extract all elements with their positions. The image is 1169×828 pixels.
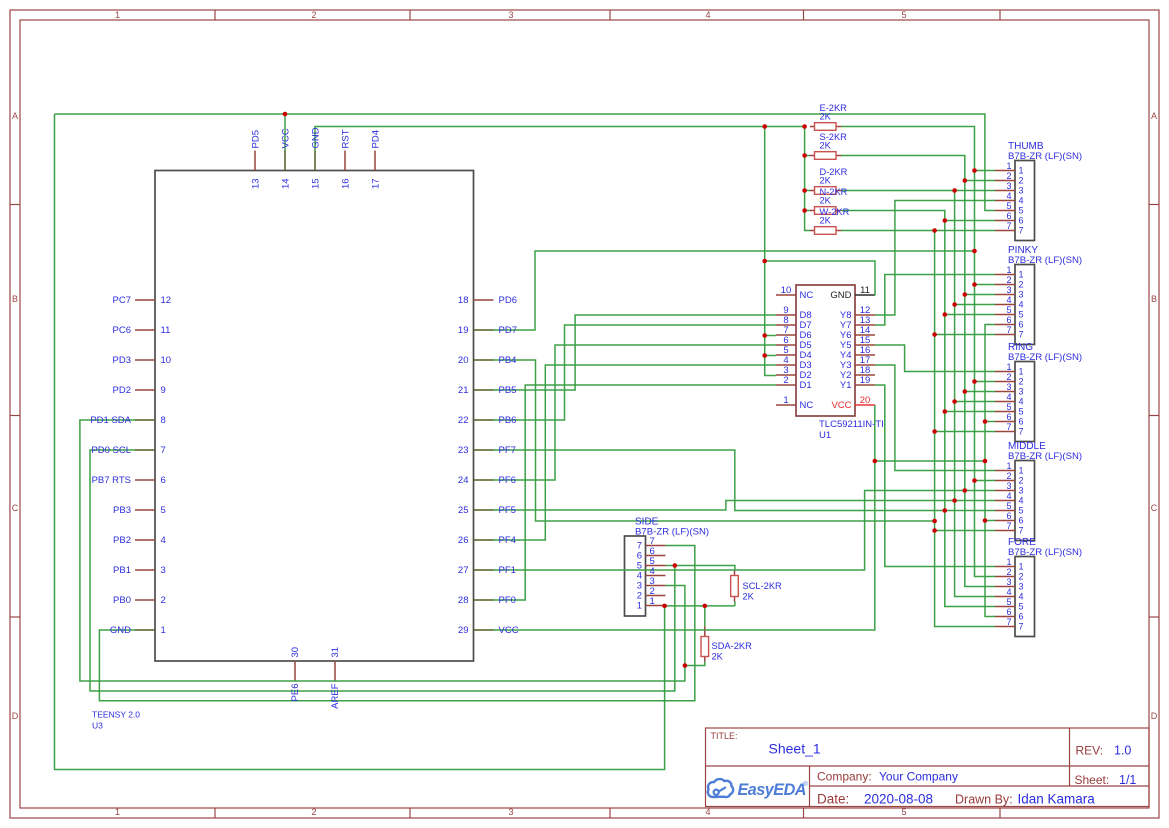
svg-text:7: 7 [1006,422,1011,432]
U3 pin 17 PD4 [374,151,376,171]
svg-text:1: 1 [115,807,120,817]
svg-text:19: 19 [458,325,469,336]
U1 pin 14 Y6 [855,334,875,336]
U3 pin 15 GND [314,151,316,171]
U3 pin 12 PC7 [135,299,155,301]
svg-text:B7B-ZR (LF)(SN): B7B-ZR (LF)(SN) [1008,151,1082,162]
svg-text:C: C [1151,503,1158,513]
resistor R N-2KR labels [820,187,848,206]
wire U3 pin22 PB6 to U1 D7 [494,325,777,420]
svg-text:20: 20 [860,395,871,406]
svg-text:PB5: PB5 [499,385,517,396]
connector MIDDLE B7B-ZR body labels [1008,441,1082,462]
wire U3 pin25 PF5 D sense [494,501,955,511]
svg-text:Sheet:: Sheet: [1075,773,1110,787]
wire net SDA from U3 pin8 to SIDE pin3 [80,420,685,681]
svg-text:VCC: VCC [281,128,292,148]
U3 pin 2 PB0 [135,599,155,601]
U3 pin 29 VCC [474,629,494,631]
svg-text:14: 14 [281,178,292,189]
U3 pin 2 PB0 labels [113,595,166,606]
wire net W column [841,231,995,627]
U1 pin 12 Y8 [855,314,875,316]
THUMB pin 1 [995,170,1015,172]
U1 pin 16 Y4 labels [840,345,870,361]
svg-text:PB4: PB4 [499,355,517,366]
svg-text:8: 8 [161,415,166,426]
PINKY pin 3 [995,294,1015,296]
svg-text:2: 2 [1006,275,1011,285]
wire VCC link row [875,460,985,462]
SIDE pin 4 labels [637,566,655,582]
svg-text:1: 1 [650,596,655,607]
resistor SDA-2KR [701,627,709,662]
MIDDLE pin 1 labels [1006,461,1023,476]
U3 pin 29 VCC labels [458,625,519,636]
connector THUMB B7B-ZR body [1015,161,1035,241]
svg-text:3: 3 [1019,186,1024,196]
MIDDLE pin 6 labels [1006,511,1023,526]
U3 pin 15 GND labels [311,127,322,189]
svg-text:1: 1 [1006,161,1011,171]
svg-text:2K: 2K [743,592,755,602]
svg-text:7: 7 [1019,330,1024,340]
svg-text:1: 1 [783,395,788,406]
PINKY pin 4 [995,304,1015,306]
svg-text:29: 29 [458,625,469,636]
svg-text:PB7 RTS: PB7 RTS [92,475,131,486]
svg-text:27: 27 [458,565,469,576]
U3 pin 1 GND labels [110,625,166,636]
PINKY pin 7 labels [1006,325,1023,340]
resistor R E-2KR [810,123,841,131]
svg-text:1: 1 [1019,166,1024,176]
svg-text:PD3: PD3 [113,355,131,366]
svg-text:4: 4 [1019,196,1024,206]
svg-text:21: 21 [458,385,469,396]
U3 pin 17 PD4 labels [371,130,382,189]
svg-text:2020-08-08: 2020-08-08 [864,792,933,807]
MIDDLE pin 1 [995,470,1015,472]
PINKY pin 4 labels [1006,295,1023,310]
RING pin 4 labels [1006,392,1023,407]
connector RING B7B-ZR body labels [1008,342,1082,363]
svg-text:3: 3 [1019,290,1024,300]
wire net N column [841,211,995,607]
svg-text:2K: 2K [820,196,832,206]
THUMB pin 6 [995,220,1015,222]
PINKY pin 3 labels [1006,285,1023,300]
svg-text:2K: 2K [712,652,724,662]
U3 pin 30 PE6 labels [290,647,301,702]
svg-text:TEENSY 2.0: TEENSY 2.0 [92,710,140,720]
svg-text:B7B-ZR (LF)(SN): B7B-ZR (LF)(SN) [1008,547,1082,558]
U3 pin 7 PD0 SCL [135,449,155,451]
U3 pin 8 PD1 SDA [135,419,155,421]
svg-text:GND: GND [110,625,131,636]
U1 pin 5 D4 [776,354,796,356]
U3 pin 5 PB3 [135,509,155,511]
svg-text:3: 3 [508,807,513,817]
svg-text:2: 2 [1019,377,1024,387]
svg-text:2: 2 [1019,176,1024,186]
U3 pin 23 PF7 labels [458,445,516,456]
U1 pin 9 D8 labels [783,305,811,321]
svg-text:2: 2 [1006,372,1011,382]
SIDE pin 6 [646,555,666,557]
U3 pin 11 PC6 labels [113,325,171,336]
resistor R S-2KR [810,152,841,160]
THUMB pin 6 labels [1006,211,1023,226]
U3 pin 5 PB3 labels [113,505,166,516]
wire net E column [841,127,995,577]
U1 pin 3 D2 labels [783,365,811,381]
U1 pin 4 D3 labels [783,355,811,371]
RING pin 7 labels [1006,422,1023,437]
svg-text:1: 1 [1006,557,1011,567]
resistor R D-2KR labels [820,167,848,186]
svg-text:A: A [1151,111,1157,121]
svg-text:5: 5 [1019,310,1024,320]
SIDE pin 1 labels [637,596,655,612]
svg-text:1: 1 [1019,270,1024,280]
svg-text:2K: 2K [820,176,832,186]
U1 pin 6 D5 labels [783,335,811,351]
PINKY pin 5 [995,314,1015,316]
U3 pin 18 PD6 labels [458,295,517,306]
resistor R N-2KR [810,207,841,215]
U1 pin 3 D2 [776,374,796,376]
svg-text:6: 6 [1019,612,1024,622]
svg-text:NC: NC [800,290,814,301]
svg-text:2: 2 [161,595,166,606]
U3 pin 9 PD2 [135,389,155,391]
THUMB pin 1 labels [1006,161,1023,176]
svg-text:®: ® [803,780,808,788]
U3 pin 21 PB5 labels [458,385,517,396]
FORE pin 3 labels [1006,577,1023,592]
wire GND to U1 D2 D4 D6 [765,127,776,376]
RING pin 3 labels [1006,382,1023,397]
svg-text:6: 6 [1019,320,1024,330]
svg-text:3: 3 [1006,481,1011,491]
FORE pin 2 [995,576,1015,578]
wire SIDE pin5 row to SCL-2KR [666,566,735,571]
U1 pin 9 D8 [776,314,796,316]
RING pin 3 [995,391,1015,393]
svg-text:5: 5 [1019,506,1024,516]
wire net S column [841,156,995,587]
SIDE pin 3 [646,585,666,587]
U3 pin 1 GND [135,629,155,631]
connector THUMB B7B-ZR body labels [1008,141,1082,162]
svg-text:PD4: PD4 [371,130,382,148]
U3 pin 21 PB5 [474,389,494,391]
U3 pin 13 PD5 [254,151,256,171]
svg-text:A: A [12,111,18,121]
wire U1 Y5 to RING pin1 [875,345,995,372]
U3 pin 16 RST [344,151,346,171]
resistor R D-2KR [810,187,841,195]
MIDDLE pin 4 [995,500,1015,502]
svg-text:2: 2 [1019,280,1024,290]
U3 pin 20 PB4 [474,359,494,361]
svg-text:2: 2 [1019,476,1024,486]
RING pin 1 [995,371,1015,373]
MIDDLE pin 3 labels [1006,481,1023,496]
RING pin 2 labels [1006,372,1023,387]
U3 pin 4 PB2 labels [113,535,166,546]
U3 pin 19 PD7 [474,329,494,331]
svg-text:18: 18 [458,295,469,306]
resistor R W-2KR labels [820,207,850,226]
resistor SDA-2KR labels [712,641,753,662]
U3 pin 28 PF0 labels [458,595,516,606]
U1 pin 12 Y8 labels [840,305,870,321]
SIDE pin 7 labels [637,536,655,552]
EasyEDA logo [708,779,733,797]
svg-text:11: 11 [161,325,171,336]
SIDE pin 5 [646,565,666,567]
MIDDLE pin 6 [995,520,1015,522]
U3 pin 26 PF4 [474,539,494,541]
svg-text:PB3: PB3 [113,505,131,516]
svg-text:12: 12 [161,295,172,306]
MIDDLE pin 7 labels [1006,521,1023,536]
connector SIDE B7B-ZR body labels [635,517,709,538]
U3 pin 10 PD3 labels [113,355,172,366]
svg-text:10: 10 [781,285,792,296]
THUMB pin 3 [995,190,1015,192]
SIDE pin 5 labels [637,556,655,572]
U3 pin 25 PF5 [474,509,494,511]
U1 pin 11 GND labels [830,285,870,301]
svg-text:7: 7 [1019,526,1024,536]
MIDDLE pin 5 [995,510,1015,512]
svg-text:3: 3 [1006,577,1011,587]
svg-text:EasyEDA: EasyEDA [738,781,806,799]
U3 pin 22 PB6 labels [458,415,517,426]
U1 pin 10 NC [776,294,796,296]
svg-text:1/1: 1/1 [1119,773,1136,787]
THUMB pin 7 [995,230,1015,232]
FORE pin 6 [995,616,1015,618]
svg-text:Drawn By:: Drawn By: [955,793,1013,807]
svg-text:4: 4 [1006,587,1011,597]
svg-text:6: 6 [1006,412,1011,422]
wire U1 Y8 to THUMB pin4 [875,201,995,316]
U3 pin 24 PF6 labels [458,475,516,486]
svg-text:D: D [12,711,19,721]
U3 pin 31 AREF labels [330,647,341,709]
svg-text:VCC: VCC [831,400,851,411]
wire net D column [841,191,995,597]
svg-text:PF1: PF1 [499,565,516,576]
svg-text:4: 4 [705,807,710,817]
U1 pin 1 NC [776,404,796,406]
SIDE pin 6 labels [637,546,655,562]
svg-text:6: 6 [1006,607,1011,617]
resistor R S-2KR labels [820,132,848,151]
U3 pin 6 PB7 RTS [135,479,155,481]
FORE pin 5 labels [1006,597,1023,612]
RING pin 1 labels [1006,362,1023,377]
U1 pin 19 Y1 labels [840,375,870,391]
svg-text:3: 3 [1019,486,1024,496]
wire SDA-2KR bottom to SDA net [685,662,705,666]
SIDE pin 2 [646,595,666,597]
U1 pin 10 NC labels [781,285,814,301]
wire net SCL from U3 pin7 to SIDE pin5 [90,450,675,691]
PINKY pin 2 labels [1006,275,1023,290]
U3 pin 25 PF5 labels [458,505,516,516]
svg-text:2K: 2K [820,141,832,151]
svg-text:26: 26 [458,535,469,546]
RING pin 2 [995,381,1015,383]
U1 pin 8 D7 labels [783,315,811,331]
svg-text:17: 17 [371,178,382,189]
svg-text:TITLE:: TITLE: [711,731,738,741]
svg-text:1.0: 1.0 [1114,744,1131,758]
U1 pin 1 NC labels [783,395,813,411]
U3 pin 3 PB1 labels [113,565,166,576]
PINKY pin 2 [995,284,1015,286]
FORE pin 7 labels [1006,617,1023,632]
MIDDLE pin 2 labels [1006,471,1023,486]
U1 pin 16 Y4 [855,354,875,356]
svg-text:RST: RST [341,129,352,148]
svg-text:SDA-2KR: SDA-2KR [712,641,753,651]
SIDE pin 2 labels [637,586,655,602]
wire SIDE pin1 VCC row [665,602,735,606]
svg-text:7: 7 [161,445,166,456]
connector RING B7B-ZR body [1015,362,1035,442]
svg-text:3: 3 [161,565,166,576]
svg-text:PC7: PC7 [113,295,131,306]
U3 pin 26 PF4 labels [458,535,516,546]
svg-text:4: 4 [1006,392,1011,402]
IC U3 TEENSY 2.0 body [155,171,474,662]
THUMB pin 7 labels [1006,221,1023,236]
svg-text:6: 6 [1006,211,1011,221]
U1 pin 13 Y7 [855,324,875,326]
SIDE pin 3 labels [637,576,655,592]
svg-text:Idan Kamara: Idan Kamara [1018,792,1096,807]
svg-text:31: 31 [330,647,341,658]
U3 pin 6 PB7 RTS labels [92,475,166,486]
resistor R E-2KR labels [820,103,848,122]
wire U3 pin20 PB4 W sense [494,360,935,521]
PINKY pin 6 [995,324,1015,326]
U3 pin 13 PD5 labels [251,130,262,189]
MIDDLE pin 7 [995,530,1015,532]
wire U1 Y3 to MIDDLE pin1 [875,365,995,471]
U3 pin 8 PD1 SDA labels [90,415,165,426]
THUMB pin 2 labels [1006,171,1023,186]
FORE pin 3 [995,586,1015,588]
wire SDA-2KR top to VCC row [704,606,706,627]
svg-text:19: 19 [860,375,871,386]
THUMB pin 3 labels [1006,181,1023,196]
U3 pin 7 PD0 SCL labels [91,445,165,456]
FORE pin 7 [995,626,1015,628]
svg-text:1: 1 [637,601,642,612]
svg-text:PB1: PB1 [113,565,131,576]
svg-text:C: C [12,503,19,513]
svg-text:D1: D1 [800,380,812,391]
FORE pin 2 labels [1006,567,1023,582]
U3 pin 19 PD7 labels [458,325,517,336]
FORE pin 4 labels [1006,587,1023,602]
svg-text:PB0: PB0 [113,595,131,606]
U3 pin 24 PF6 [474,479,494,481]
svg-text:5: 5 [161,505,166,516]
svg-text:2: 2 [1019,572,1024,582]
svg-text:GND: GND [311,127,322,148]
U1 pin 14 Y6 labels [840,325,870,341]
svg-text:4: 4 [161,535,166,546]
svg-text:REV:: REV: [1076,744,1104,758]
wire U3 pin28 PF0 to U1 D1 [494,385,777,600]
U3 pin 30 PE6 [294,661,296,681]
svg-text:B: B [12,294,18,304]
svg-text:5: 5 [1006,201,1011,211]
wire net VCC comb PINKY pin6 to FORE pin6 [985,325,995,617]
svg-text:7: 7 [1019,622,1024,632]
THUMB pin 2 [995,180,1015,182]
svg-text:PB2: PB2 [113,535,131,546]
svg-text:30: 30 [290,647,301,658]
U3 reference label TEENSY 2.0 labels [92,710,140,731]
FORE pin 5 [995,606,1015,608]
wire U3 pin29 VCC to U1 pin20 [494,405,875,630]
U1 reference label TLC59211IN-TI labels [819,419,884,441]
U1 pin 7 D6 labels [783,325,811,341]
IC U1 TLC59211IN-TI body [796,285,855,416]
U1 reference label TLC59211IN-TI [0,0,1,1]
svg-text:5: 5 [1006,597,1011,607]
U3 pin 27 PF1 [474,569,494,571]
svg-text:24: 24 [458,475,469,486]
U1 pin 17 Y3 [855,364,875,366]
svg-text:PD1 SDA: PD1 SDA [90,415,131,426]
wire GND branch to U1 pin11 [765,261,875,296]
svg-text:23: 23 [458,445,469,456]
U3 pin 18 PD6 [474,299,494,301]
U1 pin 15 Y5 labels [840,335,870,351]
wire U3 pin24 PF6 to U1 D5 [494,345,777,480]
U1 pin 17 Y3 labels [840,355,870,371]
U1 pin 7 D6 [776,334,796,336]
U3 pin 11 PC6 [135,329,155,331]
svg-text:6: 6 [1006,511,1011,521]
FORE pin 4 [995,596,1015,598]
connector MIDDLE B7B-ZR body [1015,461,1035,541]
svg-text:3: 3 [1006,285,1011,295]
svg-text:B7B-ZR (LF)(SN): B7B-ZR (LF)(SN) [635,527,709,538]
svg-text:PE6: PE6 [290,684,301,702]
svg-text:5: 5 [901,10,906,20]
U3 pin 10 PD3 [135,359,155,361]
wire U3 pin19 PD7 E sense [494,251,975,330]
svg-text:U1: U1 [819,430,831,441]
connector FORE B7B-ZR body [1015,557,1035,637]
svg-text:PD2: PD2 [113,385,131,396]
svg-text:B7B-ZR (LF)(SN): B7B-ZR (LF)(SN) [1008,451,1082,462]
svg-text:D: D [1151,711,1158,721]
svg-text:PD7: PD7 [499,325,517,336]
svg-text:PF4: PF4 [499,535,516,546]
